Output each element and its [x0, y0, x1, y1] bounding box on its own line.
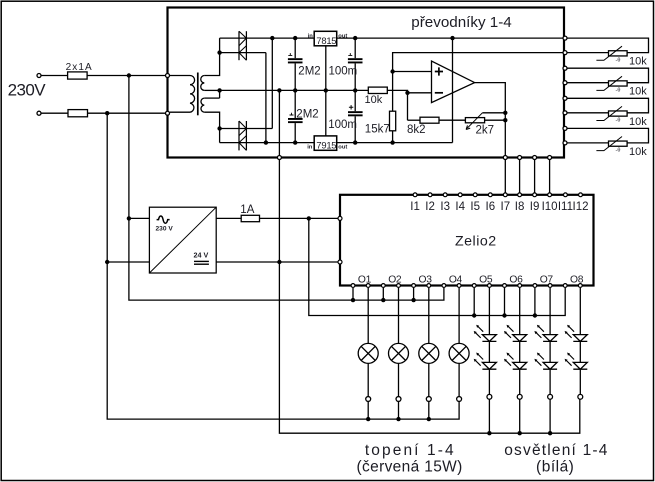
svg-text:Zelio2: Zelio2 [455, 234, 497, 250]
svg-text:in: in [308, 33, 314, 39]
terminal O5 left [472, 284, 476, 288]
svg-text:10k: 10k [629, 116, 647, 128]
node O2 on phase bus [381, 298, 385, 302]
wire 2k7 right to output node [485, 119, 506, 121]
svg-text:(červená 15W): (červená 15W) [356, 459, 462, 476]
capacitor C1 2M2 top lead [294, 38, 296, 58]
capacitor C3 bottom lead [294, 123, 296, 143]
node 0V on mid rail [277, 88, 281, 92]
converters box 1-4 [168, 8, 565, 158]
svg-text:I1: I1 [410, 201, 420, 213]
thermistor RT1 loop [566, 38, 648, 53]
wire center tap upper [204, 89, 219, 91]
terminal I11 [564, 193, 568, 197]
capacitor C3 plates [288, 118, 303, 120]
wire O5 left stub [473, 288, 475, 316]
fuse F2 [68, 110, 88, 117]
LED string 2 wire from O6 [519, 288, 521, 335]
terminal pair 2 upper [563, 66, 567, 70]
LED D10 [549, 341, 551, 362]
node rail A-vert [264, 140, 268, 144]
wire 8k2 to 2k7 [439, 119, 465, 121]
terminal O4 right [457, 284, 461, 288]
terminal O7 right [548, 284, 552, 288]
svg-text:7815: 7815 [316, 35, 336, 46]
node wiper output [503, 111, 507, 115]
terminal lamp E3 [426, 397, 431, 402]
thermistor RT3 body [609, 111, 628, 116]
terminal lamp E1 [366, 397, 371, 402]
wire D3 cathode riser [271, 38, 273, 128]
terminal pair 2 lower [563, 81, 567, 85]
terminal LED string 1 [487, 394, 492, 399]
transformer TR1 secondary upper winding [201, 76, 205, 91]
svg-text:I9: I9 [530, 201, 540, 213]
thermistor RT2 loop [566, 68, 648, 83]
svg-text:24 V: 24 V [194, 250, 209, 259]
terminal I5 [473, 193, 477, 197]
LED string 2 lower wire [519, 369, 521, 394]
terminal I2 [428, 193, 432, 197]
thermistor RT4 body [609, 141, 628, 146]
svg-text:I12: I12 [573, 201, 589, 213]
terminal LED string 2 [517, 394, 522, 399]
wire N into PSU [107, 261, 149, 263]
wire PSU 24V+ to fuse 1A [216, 217, 241, 219]
terminal I4 [458, 193, 462, 197]
wire center tap link [219, 90, 221, 98]
terminal converter out 4 [548, 156, 552, 160]
svg-text:2M2: 2M2 [296, 109, 318, 121]
thermistor RT2 body [609, 81, 628, 86]
terminal I8 [518, 193, 522, 197]
diode D2 triangle [239, 46, 246, 61]
terminal 0V box bottom [277, 156, 281, 160]
lamp E1 body [358, 343, 378, 363]
svg-text:7915: 7915 [316, 140, 336, 151]
node C3 bottom [293, 140, 297, 144]
regulator U2 7815 gnd pin [325, 46, 327, 136]
node LED string 2 on return bus [518, 431, 522, 435]
terminal O2 left [381, 284, 385, 288]
LED D11 [573, 335, 587, 342]
node rail B-vert [270, 36, 274, 40]
transformer TR1 primary winding [190, 76, 195, 113]
LED string 1 wire from O5 [488, 288, 490, 335]
terminal pair 3 upper [563, 96, 567, 100]
terminal LED string 3 [548, 394, 553, 399]
capacitor C4 bottom lead [354, 116, 356, 142]
terminal pair 3 lower [563, 111, 567, 115]
terminal box input L [166, 74, 170, 78]
node C2 bottom [353, 88, 357, 92]
terminal I3 [443, 193, 447, 197]
wire fuse F1 to box [87, 75, 165, 77]
terminal pair 1 lower [563, 51, 567, 55]
node O1 on phase bus [351, 298, 355, 302]
wire phase L drop to PSU and lamp bus [129, 76, 444, 301]
capacitor C4 plates [348, 111, 363, 113]
node non-inverting tee [390, 69, 394, 73]
terminal O6 left [503, 284, 507, 288]
capacitor C4 polarity mark [349, 105, 353, 109]
terminal I10 [548, 193, 552, 197]
wire fuse 1A to Zelio supply + [260, 217, 338, 219]
svg-text:I2: I2 [425, 201, 435, 213]
wire trimmer wiper to output node [482, 112, 505, 114]
terminal I7 [503, 193, 507, 197]
capacitor C2 100m top lead [354, 38, 356, 58]
svg-text:2x1A: 2x1A [66, 62, 93, 73]
svg-text:O8: O8 [570, 275, 584, 286]
wire +15 rail left of 7815 [220, 37, 315, 39]
LED string 1 lower wire [488, 369, 490, 394]
terminal 230V line N [37, 111, 41, 115]
svg-text:osvětlení 1-4: osvětlení 1-4 [504, 442, 608, 459]
op-amp minus sign [435, 92, 443, 94]
node 24V+ / LED bus feed [307, 216, 311, 220]
op-amp U1 triangle [432, 61, 475, 103]
capacitor C1 polarity mark [288, 53, 292, 55]
wire LED string 2 to return bus [519, 399, 521, 433]
svg-text:230V: 230V [8, 81, 47, 100]
svg-text:15k7: 15k7 [365, 123, 390, 135]
wire to op-amp inverting input [408, 92, 432, 94]
terminal O8 right [578, 284, 582, 288]
lamp E3 wire from O3 [428, 288, 430, 344]
svg-text:10k: 10k [629, 146, 647, 158]
terminal lamp E4 [457, 397, 462, 402]
svg-text:I3: I3 [440, 201, 450, 213]
lamp E3 lower wire [428, 363, 430, 396]
resistor R3 8k2 body [420, 117, 439, 123]
node O3 on phase bus [411, 298, 415, 302]
svg-text:230 V: 230 V [156, 226, 174, 233]
regulator U3 7915 body [314, 136, 337, 150]
svg-text:O3: O3 [419, 275, 433, 286]
wire 0V drop inside box [278, 90, 280, 157]
wire lamp E3 to N bus [428, 401, 430, 419]
terminal O1 right [366, 284, 370, 288]
svg-text:I11: I11 [558, 201, 573, 213]
svg-text:out: out [338, 145, 347, 151]
lamp E2 body [389, 343, 409, 363]
terminal O2 right [397, 284, 401, 288]
wire O6 left stub [504, 288, 506, 316]
svg-text:10k: 10k [365, 94, 383, 106]
op-amp plus sign [435, 67, 443, 75]
LED string 3 wire from O7 [549, 288, 551, 335]
terminal O7 left [533, 284, 537, 288]
terminal O8 left [563, 284, 567, 288]
lamp E3 body [419, 343, 439, 363]
LED D8 [519, 341, 521, 362]
wire secondary bottom lead to node Y [204, 112, 219, 142]
terminal Zelio 24V- [338, 260, 342, 264]
thermistor RT2 mark [596, 76, 622, 90]
terminal O1 left [351, 284, 355, 288]
node 24V- / 0V tie [277, 260, 281, 264]
wire D2 anode drop [265, 53, 267, 143]
node C1 bottom [293, 88, 297, 92]
wire +15 rail right of 7815 [337, 37, 564, 39]
terminal O6 right [518, 284, 522, 288]
capacitor C2 bottom lead [354, 63, 356, 90]
node lamp E2 on N bus [396, 417, 400, 421]
resistor R2 15k7 body [390, 111, 396, 131]
svg-text:1A: 1A [240, 204, 254, 216]
node O6 on 24V bus [502, 313, 506, 317]
node L at PSU input [127, 216, 131, 220]
diode D1 triangle [239, 31, 246, 46]
svg-text:8k2: 8k2 [407, 124, 426, 136]
rectifier diodes D3 D4 bars [238, 121, 240, 150]
PLC Zelio2 box [340, 195, 594, 286]
wire node Y to rectifier upper diode [220, 128, 273, 130]
power supply AC sine symbol [157, 216, 170, 223]
svg-text:O1: O1 [358, 275, 372, 286]
wire secondary top lead to node X [204, 38, 219, 75]
lamp E4 body [449, 343, 469, 363]
terminal converter out 2 [518, 156, 522, 160]
svg-text:2k7: 2k7 [476, 124, 495, 136]
svg-text:I7: I7 [501, 201, 511, 213]
LED D7 [513, 335, 527, 342]
svg-text:I10: I10 [542, 201, 558, 213]
node lamp E1 on N bus [366, 417, 370, 421]
wire converter out 3 [534, 158, 536, 193]
terminal box input N [166, 111, 170, 115]
lamp E4 lower wire [458, 363, 460, 396]
capacitor C1 bottom lead [294, 63, 296, 90]
terminal O3 right [427, 284, 431, 288]
power supply diagonal [149, 207, 216, 273]
transformer TR1 core [197, 73, 199, 116]
thermistor RT3 loop [566, 98, 648, 113]
node inverting input tee [405, 91, 409, 95]
transformer TR1 primary bottom lead [170, 111, 190, 113]
node Y [217, 126, 221, 130]
trimmer P1 arrow [467, 113, 482, 128]
svg-text:O4: O4 [449, 275, 463, 286]
svg-text:I6: I6 [486, 201, 496, 213]
LED string 4 lower wire [579, 369, 581, 394]
wire op-amp output [475, 83, 506, 193]
wire converter out 2 [519, 158, 521, 193]
wire converter out 4 [549, 158, 551, 193]
wire to op-amp non-inverting input [393, 71, 432, 73]
power supply PS1 230V/24V box [149, 207, 216, 273]
resistor R1 10k body [368, 87, 387, 93]
thermistor RT4 mark [596, 137, 622, 151]
terminal I6 [488, 193, 492, 197]
wire R2 bottom to -15 rail [392, 131, 394, 143]
capacitor C3 2M2 top lead [294, 90, 296, 118]
lamp E1 wire from O1 [367, 288, 369, 344]
LED D9 [543, 335, 557, 342]
lamp E2 lower wire [398, 363, 400, 396]
wire 0V common drop to LED return bus [279, 158, 579, 434]
svg-text:-θ: -θ [616, 148, 621, 154]
node R2 on -15 rail [390, 140, 394, 144]
capacitor C3 polarity mark [290, 113, 294, 115]
capacitor C4 100m top lead [354, 90, 356, 111]
lamp E4 wire from O4 [458, 288, 460, 344]
diode D3 triangle [239, 121, 246, 136]
terminal O4 left [442, 284, 446, 288]
svg-text:topení 1-4: topení 1-4 [365, 442, 456, 459]
node LED string 3 on return bus [548, 431, 552, 435]
LED string 3 lower wire [549, 369, 551, 394]
svg-text:2M2: 2M2 [298, 65, 320, 77]
terminal pair 4 upper [563, 126, 567, 130]
wire O7 left stub [534, 288, 536, 316]
svg-text:out: out [338, 34, 347, 40]
wire LED string 3 to return bus [549, 399, 551, 433]
LED string 4 wire from O8 [579, 288, 581, 335]
svg-text:10k: 10k [629, 56, 647, 68]
wire R1 to inverting node [387, 90, 407, 120]
capacitor C2 plates [348, 58, 363, 60]
node C1 top [293, 36, 297, 40]
fuse F3 1A [241, 215, 259, 221]
transformer TR1 secondary lower winding [201, 98, 204, 112]
thermistor RT3 mark [596, 106, 622, 120]
wire lamp E1 to N bus [367, 401, 369, 419]
svg-text:10k: 10k [629, 86, 647, 98]
svg-text:in: in [307, 144, 313, 150]
node X tap [217, 50, 221, 54]
svg-text:O7: O7 [540, 275, 554, 286]
node N at PSU input [105, 260, 109, 264]
thermistor RT1 body [609, 51, 628, 56]
terminal converter out 1 [503, 156, 507, 160]
svg-text:-θ: -θ [616, 57, 621, 63]
terminal pair 4 lower [563, 141, 567, 145]
transformer TR1 primary top lead [170, 75, 190, 77]
wire L to fuse [41, 75, 67, 77]
terminal converter out 3 [533, 156, 537, 160]
wire center tap lower [204, 97, 219, 99]
svg-text:O6: O6 [509, 275, 523, 286]
fuse F1 2x1A [68, 72, 88, 79]
terminal pair 1 upper [563, 36, 567, 40]
wire O2 left stub [382, 288, 384, 300]
wire L into PSU [129, 217, 150, 219]
terminal O5 right [488, 284, 492, 288]
node op-amp V+ [450, 36, 454, 40]
svg-text:převodníky 1-4: převodníky 1-4 [411, 14, 511, 31]
svg-text:-θ: -θ [616, 118, 621, 124]
wire mid rail 0V [220, 89, 369, 91]
wire LED string 1 to return bus [488, 399, 490, 433]
wire O1 left stub [352, 288, 354, 300]
svg-text:I5: I5 [470, 201, 480, 213]
terminal O3 left [412, 284, 416, 288]
wire fuse F2 to box [88, 112, 166, 114]
node O7 on 24V bus [533, 313, 537, 317]
node C2 top [353, 36, 357, 40]
svg-text:100m: 100m [329, 65, 358, 77]
regulator U2 7815 body [314, 31, 337, 46]
node gnd pin mid rail [324, 88, 328, 92]
terminal lamp E2 [396, 397, 401, 402]
rectifier diodes D1 D2 bars [238, 31, 240, 60]
wire 8k2 link [408, 119, 421, 121]
LED D6 [488, 341, 490, 362]
svg-text:-θ: -θ [616, 88, 621, 94]
svg-text:(bílá): (bílá) [536, 459, 574, 476]
svg-text:100m: 100m [328, 119, 357, 131]
diode D4 triangle [239, 136, 246, 151]
capacitor C2 polarity mark [348, 53, 352, 55]
node N / PSU feed [105, 111, 109, 115]
node feedback output [503, 118, 507, 122]
trimmer P1 2k7 body [465, 118, 484, 123]
svg-text:I8: I8 [515, 201, 525, 213]
node LED string 1 on return bus [487, 431, 491, 435]
LED D12 [579, 341, 581, 362]
svg-text:O2: O2 [388, 275, 402, 286]
node C4 bottom [353, 140, 357, 144]
wire phase N drop to PSU and lamp return bus [107, 113, 459, 419]
lamp E2 wire from O2 [398, 288, 400, 344]
wire sensor rail T2 [393, 53, 564, 112]
wire op-amp supply [452, 38, 454, 143]
wire PSU 24V- to Zelio supply - [216, 261, 337, 263]
terminal I12 [579, 193, 583, 197]
thermistor RT4 loop [566, 128, 648, 143]
terminal 230V line L [37, 74, 41, 78]
node center tap [217, 88, 221, 92]
thermistor RT1 mark [596, 46, 622, 60]
wire lamp E2 to N bus [398, 401, 400, 419]
terminal LED string 4 [578, 394, 583, 399]
svg-text:O5: O5 [479, 275, 493, 286]
capacitor C1 plates [288, 58, 303, 60]
wire N to fuse [41, 112, 68, 114]
lamp E1 lower wire [367, 363, 369, 396]
terminal I1 [413, 193, 417, 197]
svg-text:I4: I4 [455, 201, 465, 213]
wire O3 left stub [413, 288, 415, 300]
wire 24V+ drop to O5-O8 common bus [309, 218, 565, 315]
wire -15 rail left of 7915 [220, 142, 315, 144]
terminal I9 [533, 193, 537, 197]
node O5 on 24V bus [472, 313, 476, 317]
power supply 24V DC symbol double bar [194, 260, 209, 262]
wire node X to rectifier lower diode [220, 52, 266, 54]
wire -15 rail right of 7915 [337, 142, 453, 144]
node L / PSU feed [127, 73, 131, 77]
node lamp E3 on N bus [427, 417, 431, 421]
terminal Zelio 24V+ [338, 216, 342, 220]
LED D5 [482, 335, 496, 342]
